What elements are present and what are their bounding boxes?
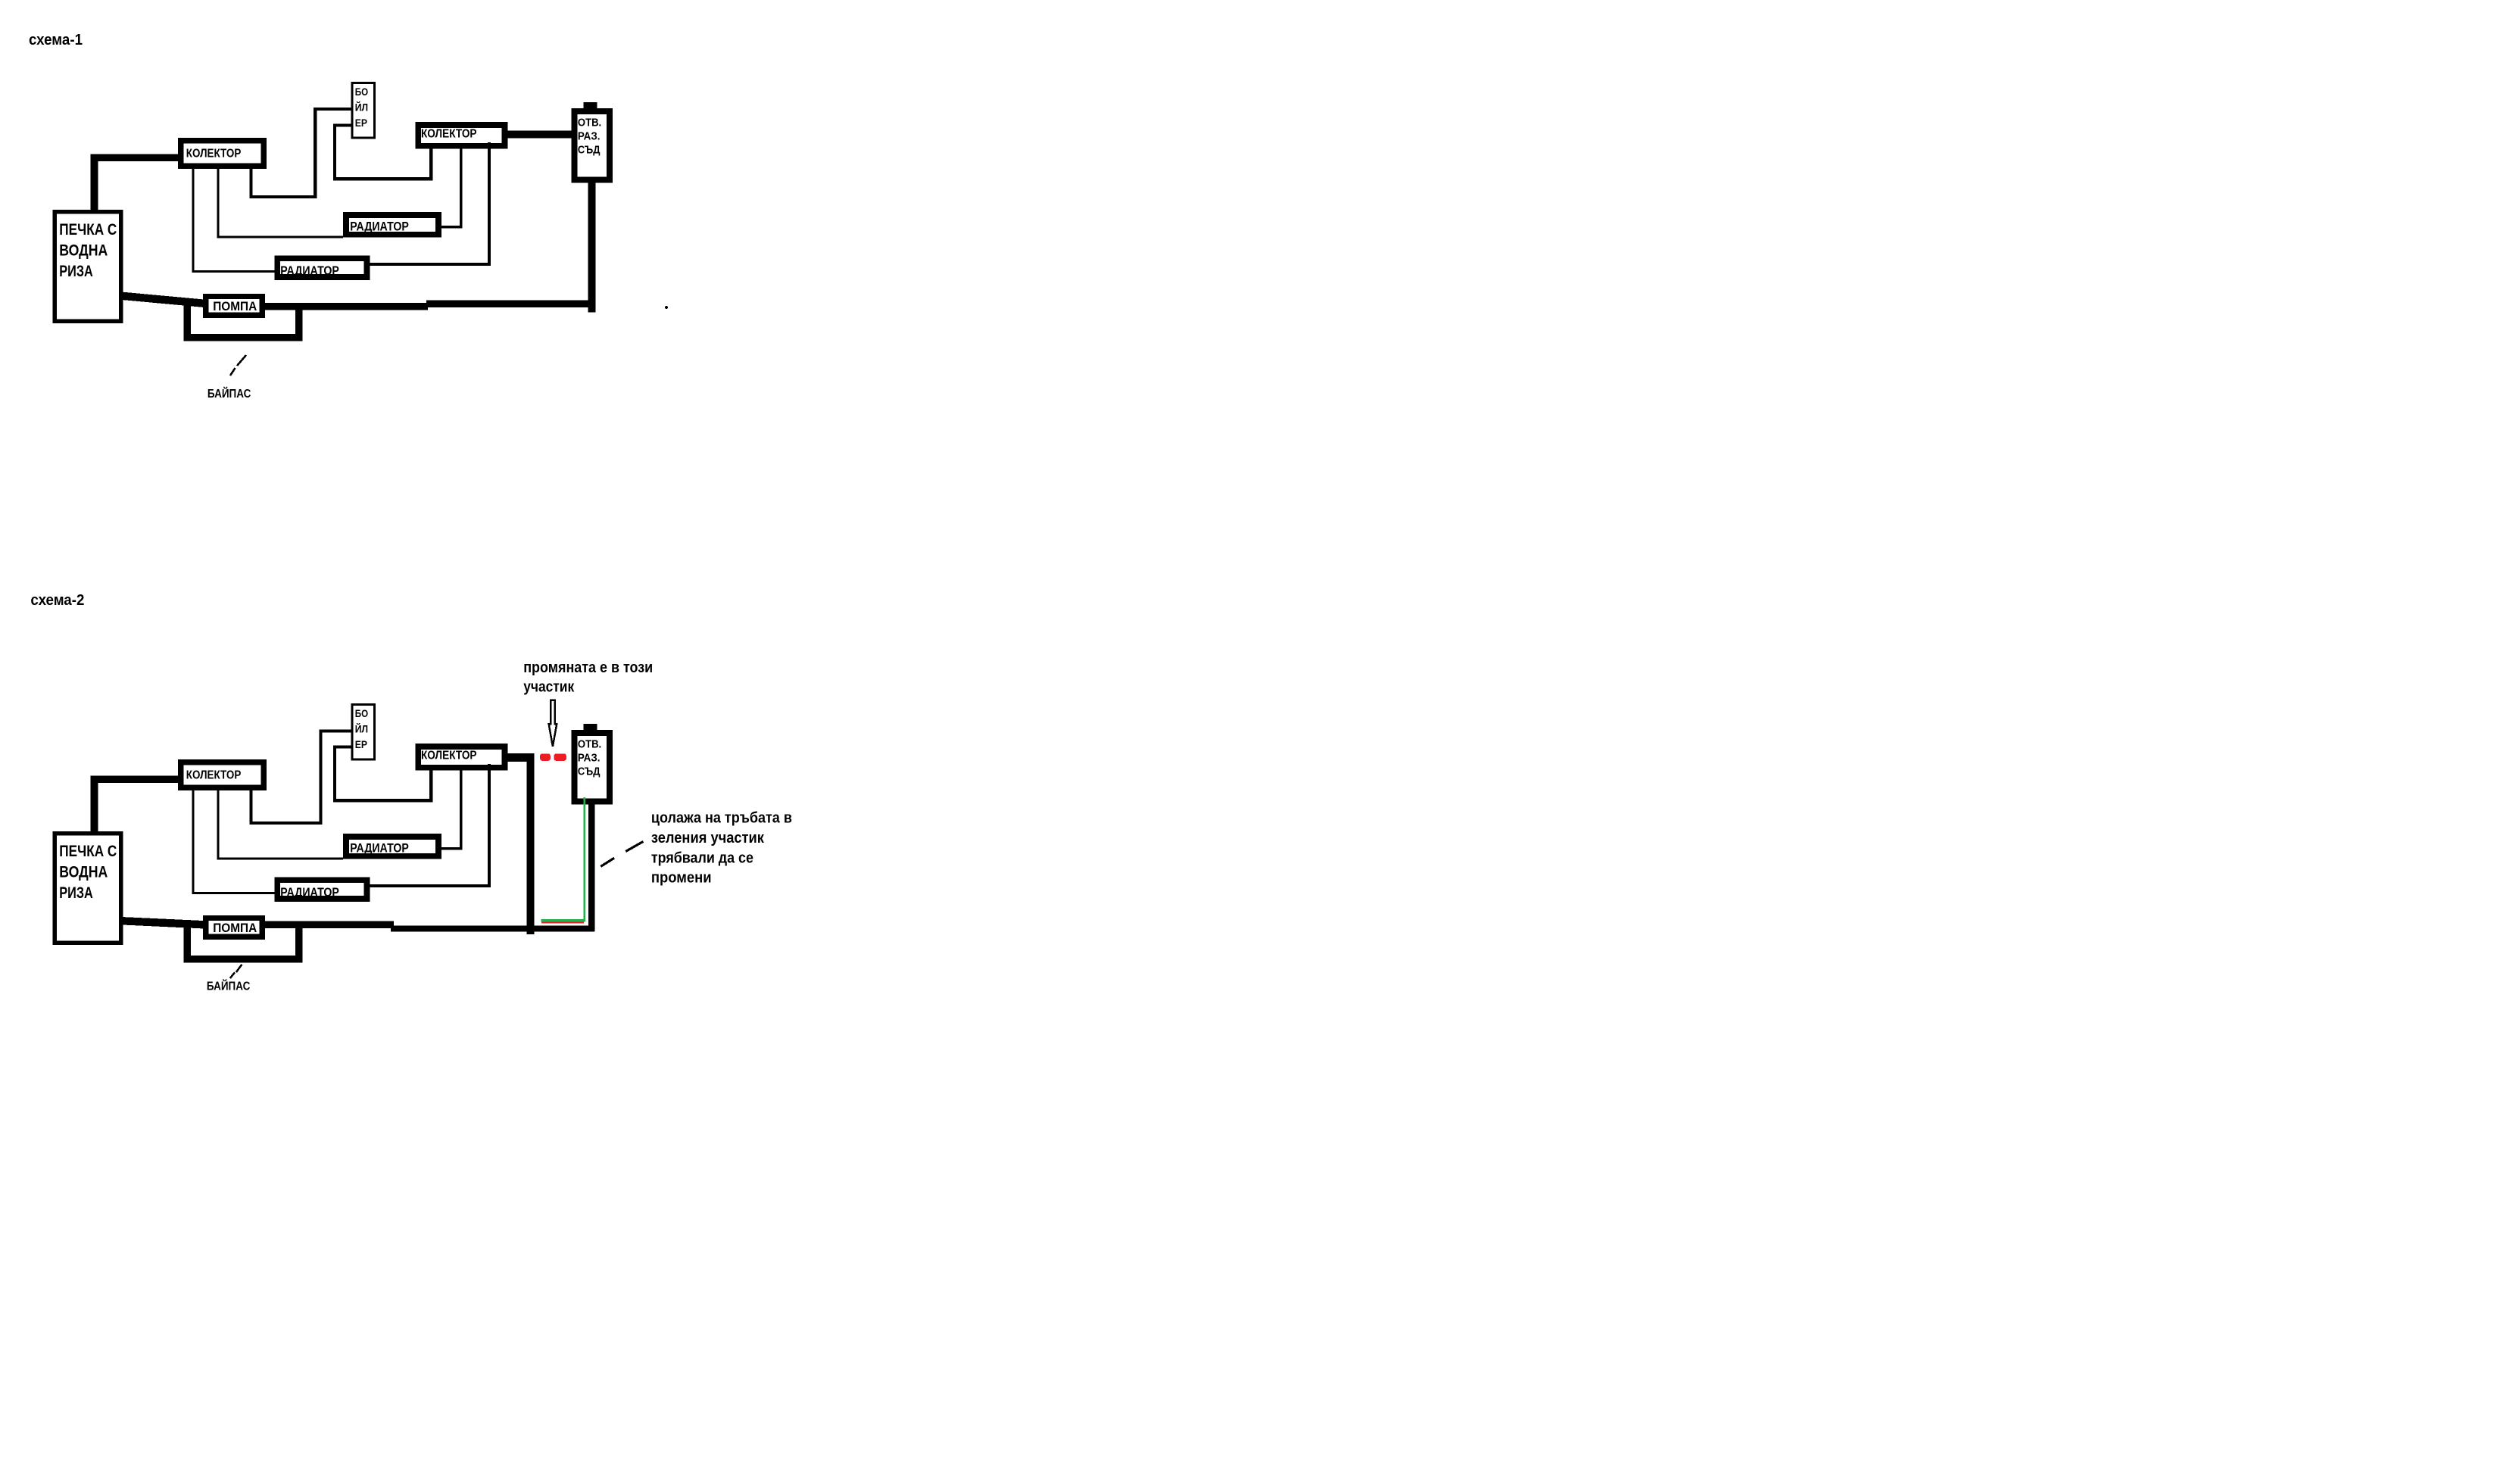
boiler box БОЙЛЕР (schema 2): [352, 705, 374, 760]
svg-text:КОЛЕКТОР: КОЛЕКТОР: [186, 769, 242, 782]
wire left collector to lower radiator (schema 1): [193, 169, 274, 272]
wire left collector to lower radiator (schema 2): [193, 790, 274, 893]
svg-text:схема-1: схема-1: [29, 32, 83, 48]
svg-text:РИЗА: РИЗА: [59, 263, 93, 280]
svg-text:ЙЛ: ЙЛ: [355, 724, 368, 735]
wire right collector right stub (schema 2): [507, 753, 531, 762]
note leader dash a (schema 2): [601, 858, 614, 866]
svg-text:ВОДНА: ВОДНА: [59, 242, 108, 260]
svg-text:ПОМПА: ПОМПА: [213, 921, 257, 935]
note leader dash b (schema 2): [625, 841, 643, 851]
hollow down arrow annotation (schema 2): [549, 700, 557, 747]
svg-text:промени: промени: [651, 870, 712, 887]
svg-text:ОТВ.: ОТВ.: [578, 117, 601, 129]
svg-text:БО: БО: [355, 708, 368, 719]
bypass leader dash a (schema 1): [230, 368, 236, 376]
svg-text:ПЕЧКА С: ПЕЧКА С: [59, 843, 117, 860]
svg-text:РАЗ.: РАЗ.: [578, 131, 601, 143]
expansion vessel box ОТВ.РАЗ.СЪД (schema 1): [574, 111, 610, 179]
svg-text:СЪД: СЪД: [578, 766, 601, 778]
left collector box (schema 2): [181, 762, 264, 788]
wire left collector to boiler feed (schema 2): [251, 731, 351, 824]
wire stove top to left collector (schema 1): [95, 157, 179, 210]
expansion vessel cap nub (schema 2): [583, 724, 597, 731]
main return wire left part (schema 2): [265, 921, 394, 928]
wire lower radiator to right collector (schema 2): [370, 764, 489, 886]
wire boiler return to right collector (schema 2): [335, 747, 431, 801]
svg-text:ЕР: ЕР: [355, 117, 367, 129]
wire collector stub down to main return (schema 2): [526, 753, 534, 934]
stove box ПЕЧКА С ВОДНА РИЗА (schema 1): [55, 212, 121, 321]
wire upper radiator to right collector (schema 1): [441, 149, 461, 227]
svg-text:СЪД: СЪД: [578, 145, 601, 157]
svg-text:ОТВ.: ОТВ.: [578, 738, 601, 750]
svg-text:зеления участик: зеления участик: [651, 830, 765, 846]
wire right collector to vessel (schema 1): [507, 131, 571, 139]
right collector box (schema 1): [418, 125, 504, 146]
svg-text:ПОМПА: ПОМПА: [213, 300, 257, 313]
lower radiator box (schema 1): [277, 258, 367, 277]
svg-text:участик: участик: [523, 679, 575, 696]
bypass loop wire (schema 2): [187, 923, 298, 959]
green pipe horizontal segment (schema 2): [541, 919, 586, 922]
svg-text:КОЛЕКТОР: КОЛЕКТОР: [186, 148, 242, 161]
bypass leader dash b (schema 1): [237, 355, 246, 366]
expansion vessel box ОТВ.РАЗ.СЪД (schema 2): [574, 733, 610, 801]
svg-text:ЙЛ: ЙЛ: [355, 102, 368, 114]
wire vessel bottom down to main return (schema 1): [588, 182, 595, 312]
stove box ПЕЧКА С ВОДНА РИЗА (schema 2): [55, 834, 121, 943]
red thin underline under green pipe (schema 2): [541, 922, 584, 924]
main return wire right part (schema 2): [391, 926, 594, 932]
svg-text:цолажа на тръбата в: цолажа на тръбата в: [651, 810, 792, 827]
right collector box (schema 2): [418, 747, 504, 768]
wire left collector to upper radiator (schema 1): [218, 169, 343, 237]
wire stove right to pump (schema 2): [121, 921, 204, 924]
svg-text:БАЙПАС: БАЙПАС: [207, 979, 251, 993]
svg-text:КОЛЕКТОР: КОЛЕКТОР: [421, 750, 477, 762]
svg-text:РАДИАТОР: РАДИАТОР: [350, 220, 409, 234]
bypass leader dash b (schema 2): [236, 965, 242, 972]
svg-text:ЕР: ЕР: [355, 739, 367, 750]
boiler box БОЙЛЕР (schema 1): [352, 83, 374, 139]
upper radiator box (schema 2): [346, 837, 438, 856]
svg-text:РАДИАТОР: РАДИАТОР: [280, 264, 339, 278]
wire vessel bottom down (schema 2): [588, 804, 594, 931]
wire stove right to pump (schema 1): [121, 296, 204, 304]
red dashed mark 2 (removed pipe) (schema 2): [554, 753, 566, 760]
bypass loop wire (schema 1): [187, 301, 298, 338]
pump box ПОМПА (schema 2): [206, 918, 262, 937]
svg-text:БО: БО: [355, 86, 368, 98]
upper radiator box (schema 1): [346, 215, 438, 235]
svg-text:трябвали да се: трябвали да се: [651, 850, 753, 866]
wire stove top to left collector (schema 2): [95, 779, 179, 831]
pump box ПОМПА (schema 1): [206, 297, 262, 316]
main return wire pump to vessel right part (schema 1): [426, 300, 595, 307]
wire lower radiator to right collector (schema 1): [370, 142, 489, 264]
wire left collector to boiler feed (schema 1): [251, 109, 351, 197]
left collector box (schema 1): [181, 141, 264, 167]
svg-text:КОЛЕКТОР: КОЛЕКТОР: [421, 128, 477, 141]
svg-text:ПЕЧКА С: ПЕЧКА С: [59, 221, 117, 238]
svg-text:схема-2: схема-2: [30, 592, 84, 609]
stray dot (schema 1): [665, 306, 668, 309]
lower radiator box (schema 2): [277, 880, 367, 899]
svg-text:РИЗА: РИЗА: [59, 884, 93, 902]
svg-text:БАЙПАС: БАЙПАС: [207, 387, 251, 401]
wire left collector to upper radiator (schema 2): [218, 790, 343, 859]
red dashed mark 1 (removed pipe) (schema 2): [540, 753, 551, 760]
bypass leader dash a (schema 2): [230, 972, 235, 978]
svg-text:РАДИАТОР: РАДИАТОР: [350, 842, 409, 856]
expansion vessel cap nub (schema 1): [583, 102, 597, 109]
svg-text:ВОДНА: ВОДНА: [59, 864, 108, 881]
wire upper radiator to right collector (schema 2): [441, 771, 461, 849]
green pipe vertical segment (schema 2): [584, 797, 586, 922]
wire boiler return to right collector (schema 1): [335, 126, 431, 179]
svg-text:РАЗ.: РАЗ.: [578, 753, 601, 765]
svg-text:РАДИАТОР: РАДИАТОР: [280, 886, 339, 899]
main return wire pump to vessel left part (schema 1): [265, 303, 428, 310]
svg-text:промяната е в този: промяната е в този: [523, 659, 653, 676]
